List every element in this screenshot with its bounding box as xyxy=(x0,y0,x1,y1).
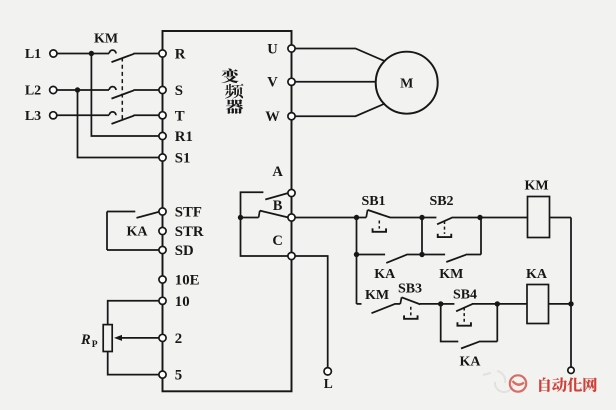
contactor contact KM (interlock) xyxy=(372,304,401,313)
svg-text:5: 5 xyxy=(175,368,182,384)
wire KA coil to bus xyxy=(549,303,572,305)
terminal B xyxy=(288,214,295,221)
pushbutton SB4 (NO) xyxy=(441,304,498,311)
SB3 actuator xyxy=(404,307,418,319)
inverter label 频 xyxy=(225,84,244,99)
wire riser SB1 parallel xyxy=(356,218,358,255)
wire B to SB1 xyxy=(295,217,356,219)
wire SB2 to KM coil xyxy=(480,217,528,219)
terminal 10E xyxy=(159,276,166,283)
label 2 xyxy=(175,331,182,347)
svg-text:KM: KM xyxy=(94,31,118,46)
wire right bus xyxy=(570,218,572,368)
svg-text:P: P xyxy=(92,340,98,350)
svg-text:V: V xyxy=(267,75,278,91)
motor M xyxy=(376,52,438,114)
svg-text:SB3: SB3 xyxy=(398,282,422,297)
wire V to motor xyxy=(295,81,376,83)
relay contact KA (self-hold) xyxy=(357,255,423,263)
terminal L2 xyxy=(50,86,57,93)
wire KM coil to bus xyxy=(550,217,572,219)
label U xyxy=(267,41,278,57)
node B link xyxy=(238,215,243,220)
label SB2 xyxy=(429,194,453,209)
label KA (parallel SB4) xyxy=(460,355,482,370)
label KA (STF loop) xyxy=(127,224,149,239)
svg-text:SB4: SB4 xyxy=(453,288,477,303)
svg-text:KA: KA xyxy=(127,224,149,239)
terminal U xyxy=(288,45,295,52)
terminal A xyxy=(288,189,295,196)
relay blade to A xyxy=(265,193,288,200)
svg-text:M: M xyxy=(400,77,413,92)
svg-text:S1: S1 xyxy=(175,151,191,167)
wire A-C link left xyxy=(241,192,289,256)
wire C to terminal L xyxy=(295,256,328,367)
label KM (main contact) xyxy=(94,31,118,46)
terminal R1 xyxy=(159,132,166,139)
svg-text:U: U xyxy=(267,41,278,57)
svg-text:A: A xyxy=(272,164,283,180)
node KA parallel left xyxy=(354,252,359,257)
wire L3 to KM xyxy=(57,114,109,116)
svg-text:KM: KM xyxy=(365,288,389,303)
label V xyxy=(267,75,278,91)
wire 10 to RP top xyxy=(108,301,159,325)
label SB4 xyxy=(453,288,477,303)
wire L2 branch to S1 xyxy=(78,90,159,158)
node KM parallel left xyxy=(419,252,424,257)
label R xyxy=(175,47,186,63)
label STR xyxy=(175,224,204,240)
terminal L xyxy=(324,368,331,375)
terminal S xyxy=(159,86,166,93)
wire L1 to KM xyxy=(57,53,109,55)
svg-text:10E: 10E xyxy=(175,273,200,289)
svg-text:R1: R1 xyxy=(175,129,193,145)
label 10 xyxy=(175,294,190,310)
label 5 xyxy=(175,368,182,384)
svg-text:SB2: SB2 xyxy=(429,194,453,209)
wire riser mid xyxy=(421,218,423,255)
wire row2 start xyxy=(357,303,362,305)
node SB4 right xyxy=(495,301,500,306)
svg-text:KA: KA xyxy=(526,267,548,282)
terminal 2 xyxy=(159,334,166,341)
terminal T xyxy=(159,112,166,119)
terminal STF xyxy=(159,208,166,215)
label W xyxy=(265,109,280,125)
label A xyxy=(272,164,283,180)
potentiometer RP xyxy=(103,325,112,352)
wire KA loop left xyxy=(106,212,108,251)
pushbutton SB2 (NO) xyxy=(422,218,480,225)
contactor KM main contact phase T xyxy=(109,112,159,124)
contactor coil KM xyxy=(528,197,550,238)
svg-text:10: 10 xyxy=(175,294,190,310)
terminal W xyxy=(288,113,295,120)
svg-text:L2: L2 xyxy=(25,84,41,99)
node bus row2 xyxy=(568,301,573,306)
svg-text:SD: SD xyxy=(175,243,194,259)
label KM (interlock) xyxy=(365,288,389,303)
terminal S1 xyxy=(159,154,166,161)
svg-text:SB1: SB1 xyxy=(361,194,385,209)
node SB1/SB2 xyxy=(419,215,424,220)
terminal SD xyxy=(159,246,166,253)
relay contact to B xyxy=(241,211,288,218)
label S1 xyxy=(175,151,191,167)
label B xyxy=(273,198,283,214)
svg-text:KM: KM xyxy=(439,267,463,282)
inverter label 变 xyxy=(221,68,238,83)
label S xyxy=(175,83,183,99)
contactor KM main contact phase S xyxy=(109,87,159,99)
node L1 branch xyxy=(89,51,94,56)
label STF xyxy=(175,205,202,221)
wire U to motor xyxy=(295,49,385,62)
SB1 actuator xyxy=(373,221,387,232)
svg-text:B: B xyxy=(273,198,283,214)
label L xyxy=(324,376,333,391)
svg-text:2: 2 xyxy=(175,331,182,347)
terminal STR xyxy=(159,227,166,234)
node SB1 left xyxy=(354,215,359,220)
label L3 xyxy=(25,109,41,124)
label KM (coil) xyxy=(524,178,548,193)
svg-text:L: L xyxy=(324,376,333,391)
svg-text:KM: KM xyxy=(524,178,548,193)
wire W to motor xyxy=(295,104,385,117)
label M xyxy=(400,77,413,92)
pushbutton SB3 (NC) xyxy=(400,297,440,304)
inverter U1 变频器 box xyxy=(163,31,292,391)
svg-text:C: C xyxy=(272,233,282,249)
label L1 xyxy=(25,47,41,62)
label 10E xyxy=(175,273,200,289)
SB4 actuator xyxy=(457,308,471,326)
wire RP bottom to 5 xyxy=(108,352,159,375)
inverter label 器 xyxy=(226,99,243,113)
label RP xyxy=(80,332,98,350)
svg-text:STF: STF xyxy=(175,205,202,221)
svg-text:S: S xyxy=(175,83,183,99)
KM linkage dashed line xyxy=(121,58,123,122)
svg-text:L1: L1 xyxy=(25,47,41,62)
svg-text:R: R xyxy=(175,47,186,63)
label C xyxy=(272,233,282,249)
label L2 xyxy=(25,84,41,99)
wire SB4 to KA coil xyxy=(497,303,527,305)
wiper arrow from terminal 2 xyxy=(114,335,159,341)
SB2 actuator xyxy=(438,221,452,237)
wire riser to row 2 xyxy=(356,255,358,304)
svg-text:KA: KA xyxy=(374,267,396,282)
wire L1 branch to R1 xyxy=(91,54,158,137)
terminal C xyxy=(288,252,295,259)
node L2 branch xyxy=(75,87,80,92)
terminal R xyxy=(159,50,166,57)
label KA (coil) xyxy=(526,267,548,282)
label SB1 xyxy=(361,194,385,209)
svg-text:L3: L3 xyxy=(25,109,41,124)
label SB3 xyxy=(398,282,422,297)
svg-text:R: R xyxy=(80,332,91,348)
wire KA loop to SD xyxy=(107,249,159,251)
watermark ghost marks xyxy=(483,371,513,392)
label KA (parallel SB1) xyxy=(374,267,396,282)
wire L2 to KM xyxy=(57,89,109,91)
terminal V xyxy=(288,78,295,85)
svg-text:W: W xyxy=(265,109,280,125)
contactor contact KM (self-hold) xyxy=(422,255,481,263)
label SD xyxy=(175,243,194,259)
node SB2 right xyxy=(477,215,482,220)
terminal bus end xyxy=(568,367,574,373)
terminal 10 xyxy=(159,297,166,304)
pushbutton SB1 (NC) xyxy=(357,210,423,218)
relay contact KA (STF) xyxy=(107,212,159,218)
relay contact KA (parallel SB4) xyxy=(461,342,497,349)
svg-text:KA: KA xyxy=(460,355,482,370)
svg-text:T: T xyxy=(175,108,185,124)
terminal L1 xyxy=(50,50,57,57)
wire KA-branch right riser xyxy=(496,304,498,342)
terminal L3 xyxy=(50,112,57,119)
label KM (parallel SB2) xyxy=(439,267,463,282)
relay coil KA xyxy=(527,285,549,324)
label R1 xyxy=(175,129,193,145)
watermark logo xyxy=(510,375,526,391)
watermark text 自动化网 xyxy=(539,377,597,392)
wire riser right xyxy=(480,218,482,255)
terminal 5 xyxy=(159,371,166,378)
wire KA-branch left riser xyxy=(441,304,459,342)
node SB3/SB4 xyxy=(438,301,443,306)
svg-text:STR: STR xyxy=(175,224,204,240)
contactor KM main contact phase R xyxy=(109,50,159,62)
label T xyxy=(175,108,185,124)
